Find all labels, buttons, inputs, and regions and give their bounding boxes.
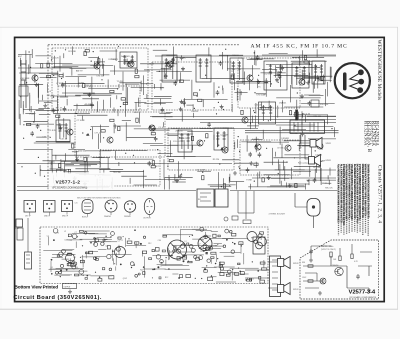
capacitor upper 14 [256, 55, 260, 60]
svg-text:C12 .05: C12 .05 [48, 162, 56, 164]
svg-text:L2: L2 [64, 231, 66, 233]
pcb extra pad 30 [110, 236, 111, 237]
pcb trace h5 [162, 234, 192, 236]
junction 39 [82, 132, 83, 133]
svg-text:C18 .04: C18 .04 [60, 139, 68, 141]
wire h68 [284, 140, 322, 142]
pcb pad 36 [152, 269, 154, 271]
capacitor upper 10 [182, 100, 186, 105]
wire v106 [98, 134, 100, 149]
svg-text:V2577-3-4: V2577-3-4 [349, 290, 376, 296]
output transistor bold bar [295, 110, 298, 121]
pcb trace v18 [115, 253, 117, 265]
capacitor upper 12 [246, 168, 250, 173]
wire z73 [56, 96, 58, 114]
junction 89 [120, 106, 121, 107]
wire v93 [291, 76, 293, 84]
pcb trace h22 [72, 233, 98, 235]
pcb trace v5 [165, 260, 167, 266]
wire h62 [297, 144, 322, 146]
wire z57 [52, 154, 90, 156]
pcb extra r6 [235, 273, 239, 276]
wire v11 [277, 106, 279, 118]
wire v72 [314, 80, 316, 88]
pcb part c30 [94, 257, 97, 260]
can square 2 [44, 201, 56, 213]
wire v149 [272, 148, 274, 165]
V34 extra wires [305, 244, 372, 288]
pcb extra trace 3 [209, 245, 224, 247]
wire h58 [267, 186, 306, 188]
wire v6 [114, 151, 116, 160]
wire v109 [208, 47, 210, 56]
ground sym 5 [249, 161, 253, 165]
wire z118 [40, 77, 57, 79]
svg-text:L2: L2 [121, 240, 123, 242]
wire z101 [222, 178, 224, 187]
wire v113 [115, 49, 117, 61]
transistor Q13 [317, 143, 323, 149]
junction 42 [117, 88, 118, 89]
wire z121 [36, 110, 59, 112]
wire z94 [152, 116, 173, 118]
IF can cross [200, 239, 210, 248]
pcb pad 40 [90, 242, 92, 244]
pcb pad 99 [232, 269, 233, 270]
svg-text:C7: C7 [252, 279, 254, 281]
pcb pad 15 [95, 257, 97, 259]
pcb trace h34 [89, 241, 117, 243]
pcb fill d18 [95, 272, 96, 273]
svg-text:FM: FM [302, 262, 305, 264]
pcb extra r1 [127, 241, 132, 243]
wire h57 [83, 93, 122, 95]
wire h72 [230, 180, 245, 182]
wire h33 [276, 97, 320, 99]
pcb pad 44 [123, 236, 124, 237]
can square 3 pins [64, 203, 70, 209]
shield box 7 [240, 140, 300, 175]
svg-text:R8 2.2K: R8 2.2K [325, 187, 333, 189]
pcb part r114 [218, 235, 220, 237]
pcb trace v22 [168, 250, 170, 259]
wire h10 [71, 162, 101, 164]
wire h70 [115, 158, 153, 160]
svg-text:SECTION VIEW SHOWING PARTS: SECTION VIEW SHOWING PARTS MOUNTING [77, 196, 121, 199]
wire z51 [53, 175, 55, 183]
junction 18 [225, 49, 226, 50]
junction 6 [331, 128, 332, 129]
transistor Q11 [247, 75, 253, 81]
wire h78 [145, 179, 186, 181]
pcb extra trace 16 [199, 248, 221, 250]
pcb pad 16 [251, 237, 252, 238]
wire z112 [280, 181, 282, 186]
wire bus 9 [17, 163, 232, 165]
wire v4 [93, 61, 95, 68]
svg-text:C7 10MF: C7 10MF [77, 120, 86, 122]
pcb part r51 [89, 251, 93, 254]
resistor upper 24 [135, 69, 137, 73]
pcb fill d17 [87, 275, 89, 277]
wire h99 [88, 56, 99, 58]
wire h95 [293, 114, 328, 116]
pcb part c116 [189, 244, 193, 248]
wire v3 [103, 64, 105, 77]
svg-text:C90 .02: C90 .02 [96, 75, 104, 77]
wire bus 6 [166, 119, 336, 121]
wire v115 [229, 174, 231, 182]
speaker SP1 [310, 138, 322, 150]
wire h39 [34, 142, 76, 144]
IF can T4 [230, 58, 243, 83]
svg-text:2SB175: 2SB175 [111, 59, 119, 61]
pcb extra r15 [67, 263, 72, 266]
svg-text:T2 455: T2 455 [117, 81, 124, 83]
pcb trace h11 [222, 238, 248, 240]
pcb trace h26 [172, 273, 178, 275]
PCB outline [40, 227, 268, 284]
pcb trace h3 [91, 275, 113, 277]
can square 2 pins [46, 203, 52, 209]
IF can T7 [312, 61, 325, 84]
svg-text:VOLUME CONTROL AT MINIMUM GANG: VOLUME CONTROL AT MINIMUM GANG CLOSED [350, 164, 353, 220]
wire v18 [284, 166, 286, 181]
wire v54 [55, 169, 57, 176]
shield box 1 [52, 48, 148, 110]
wire z80 [25, 112, 34, 114]
wire v58 [317, 75, 319, 88]
junction 17 [61, 78, 62, 79]
wire z18 [309, 60, 311, 65]
capacitor upper 28 [180, 55, 184, 60]
pcb extra r31 [226, 274, 230, 276]
svg-text:C15: C15 [116, 250, 119, 252]
pcb trace v29 [263, 260, 265, 268]
wire v107 [53, 56, 55, 68]
shield box 4 [152, 62, 232, 110]
wire v5 [34, 74, 36, 83]
pcb part r73 [247, 279, 252, 281]
svg-text:T2: T2 [57, 233, 59, 235]
capacitor upper 3 [308, 101, 312, 106]
resistor upper 44 [321, 77, 323, 81]
svg-text:SPKR: SPKR [326, 160, 332, 162]
wire z8 [261, 102, 263, 110]
pcb part c62 [56, 271, 59, 274]
svg-text:AM IF 455 KC, FM IF 10.7 MC: AM IF 455 KC, FM IF 10.7 MC [251, 43, 348, 49]
pcb part c115 [138, 273, 140, 275]
wire z41 [65, 153, 67, 161]
pcb pad 67 [184, 244, 186, 246]
ground sym 13 [275, 78, 279, 82]
junction 10 [278, 82, 279, 83]
connector drop 2 [245, 191, 247, 219]
pcb part r50 [174, 246, 176, 249]
V34 capacitor 1 [356, 274, 360, 279]
junction 65 [167, 166, 168, 167]
wire h53 [26, 123, 54, 125]
pcb part r32 [74, 274, 78, 276]
pcb part r56 [211, 257, 214, 259]
wire z23 [294, 75, 332, 77]
wire z14 [255, 56, 257, 65]
wire z96 [264, 161, 288, 163]
wire h2 [175, 56, 197, 58]
wire bus 2 [18, 67, 96, 69]
junction 66 [239, 168, 240, 169]
wire z68 [39, 114, 51, 116]
pcb extra r22 [79, 231, 83, 233]
wire v131 [72, 46, 74, 55]
transistor can TV1 pins [108, 203, 114, 210]
wire z53 [107, 158, 109, 169]
wire h111 [96, 61, 106, 63]
mid strip part a [232, 216, 238, 220]
svg-text:RT32N36A: RT32N36A [362, 121, 367, 146]
wire h40 [273, 157, 311, 159]
wire z123 [47, 84, 49, 93]
transistor Q6 [197, 140, 203, 146]
junction 29 [23, 138, 24, 139]
svg-text:JACK: JACK [149, 62, 155, 65]
terminal strip lines [272, 260, 278, 290]
pcb extra c25 [199, 256, 203, 260]
pcb trace h7 [96, 256, 106, 258]
V2577-3-4 dashed box [300, 240, 379, 299]
wire h108 [23, 109, 44, 111]
junction 84 [286, 162, 287, 163]
capacitor upper 20 [160, 107, 164, 112]
pcb trace v26 [69, 258, 71, 263]
wire h56 [174, 156, 212, 158]
wire z65 [60, 96, 68, 98]
service note stripe 9 [359, 165, 361, 232]
IF can T5 [264, 61, 287, 90]
pcb part r41 [67, 253, 71, 255]
service note stripe 6 [351, 165, 353, 232]
pcb trace v13 [179, 237, 181, 243]
wire v57 [160, 83, 162, 90]
pcb part r108 [69, 261, 74, 263]
wire h38 [169, 144, 201, 146]
sheet edge shadow bottom [0, 308, 398, 310]
pcb fill r16 [187, 243, 189, 245]
svg-text:( PC BOARD COMPONENTS): ( PC BOARD COMPONENTS) [349, 296, 377, 299]
capacitor upper 4 [301, 131, 305, 136]
wire h27 [153, 49, 167, 51]
Westinghouse logo W zigzag [350, 72, 361, 90]
wire v78 [222, 86, 224, 91]
wire z36 [69, 171, 85, 173]
capacitor upper 7 [147, 161, 151, 166]
ground sym 22 [220, 105, 224, 109]
pcb part r33 [142, 251, 146, 254]
wire z81 [144, 97, 172, 99]
pcb pad 46 [60, 276, 61, 277]
wire v122 [77, 77, 79, 88]
pcb trace h30 [218, 271, 236, 273]
pcb fill r14 [159, 277, 161, 279]
junction 78 [134, 162, 135, 163]
wire z29 [301, 70, 303, 81]
wire h7 [134, 128, 179, 130]
resistor upper 43 [56, 115, 60, 117]
sheet edge shadow right [397, 27, 399, 309]
capacitor upper 22 [174, 81, 178, 86]
junction 9 [254, 52, 255, 53]
wire v144 [257, 173, 259, 187]
transistor Q2 [94, 63, 100, 69]
wire v103 [163, 122, 165, 127]
wire h116 [219, 54, 243, 56]
ground sym 21 [59, 126, 63, 130]
pcb trace h41 [210, 276, 217, 278]
wire v28 [92, 127, 94, 140]
pcb part c84 [72, 234, 77, 239]
wire z56 [111, 182, 113, 188]
wire v45 [249, 74, 251, 90]
resistor upper 41 [136, 118, 138, 122]
wire v76 [192, 145, 194, 150]
svg-text:C30: C30 [158, 240, 161, 242]
resistor upper 34 [151, 166, 155, 168]
wire z5 [250, 58, 274, 60]
wire v95 [319, 163, 321, 181]
mid strip part b [243, 220, 251, 224]
pcb trace h20 [203, 235, 211, 237]
wire v121 [111, 177, 113, 189]
pcb part c55 [225, 229, 229, 233]
wire v147 [140, 81, 142, 92]
output transformer windings [294, 122, 318, 132]
junction 80 [40, 170, 41, 171]
V34 resistor 4 [339, 256, 341, 261]
pcb extra trace 9 [82, 256, 101, 258]
junction 88 [258, 75, 259, 76]
svg-text:R二 47: R二 47 [56, 107, 63, 110]
wire v110 [164, 178, 166, 189]
wire z46 [55, 155, 57, 160]
speaker wires lower [245, 262, 277, 288]
wire v111 [297, 112, 299, 120]
wire v135 [34, 111, 36, 121]
svg-text:SPKR: SPKR [293, 289, 299, 291]
wire z88 [166, 112, 173, 114]
wire h117 [292, 56, 324, 58]
junction 61 [297, 92, 298, 93]
capacitor upper 1 [313, 178, 317, 183]
wire z82 [192, 104, 194, 109]
wire v16 [59, 56, 61, 72]
wire h73 [62, 64, 104, 66]
pcb extra trace 13 [220, 251, 241, 253]
wire h114 [62, 83, 105, 85]
transistor Q5 [149, 125, 155, 131]
wire h13 [143, 143, 163, 145]
pcb pad 9 [173, 252, 174, 253]
wire z104 [325, 182, 332, 184]
wire h51 [65, 164, 74, 166]
svg-text:2SB156: 2SB156 [191, 111, 199, 113]
pcb extra r11 [152, 250, 154, 252]
wire h47 [119, 82, 141, 84]
capacitor upper 15 [281, 65, 285, 70]
wire h12 [35, 55, 51, 57]
wire left pcb [27, 218, 29, 252]
junction 30 [197, 96, 198, 97]
wire h60 [122, 120, 131, 122]
capacitor upper 17 [216, 90, 220, 95]
pcb extra pad 20 [241, 245, 242, 246]
transistor Q8 [255, 144, 261, 150]
connector pill [307, 199, 320, 217]
wire v74 [320, 168, 322, 185]
transistor Q12 [299, 79, 305, 85]
junction 41 [276, 70, 277, 71]
wire v133 [323, 75, 325, 85]
pcb part c31 [200, 227, 204, 231]
shield box 6 [168, 128, 234, 170]
pcb pad 61 [245, 279, 246, 280]
pcb extra trace 7 [214, 242, 222, 244]
wire z79 [30, 106, 32, 112]
pcb extra trace 11 [192, 238, 203, 240]
mid strip part c [224, 217, 228, 221]
wire h36 [19, 83, 43, 85]
electrolytic pill segs [84, 203, 91, 210]
wire h45 [124, 60, 133, 62]
junction 75 [238, 136, 239, 137]
Westinghouse logo ring [335, 63, 370, 98]
wire v50 [114, 124, 116, 128]
wire v123 [228, 177, 230, 183]
wire v25 [82, 116, 84, 120]
wire v145 [316, 49, 318, 57]
svg-text:R75 8.2K: R75 8.2K [48, 130, 57, 132]
wire z6 [309, 94, 324, 96]
wire v17 [99, 69, 101, 74]
pcb pad 117 [143, 266, 145, 268]
wire h112 [97, 157, 110, 159]
pcb pad 10 [82, 245, 83, 246]
svg-text:C9 365: C9 365 [277, 147, 284, 149]
wire h9 [52, 67, 72, 69]
wire v97 [301, 111, 303, 124]
capacitor upper 24 [164, 74, 168, 79]
sheet edge top [0, 26, 398, 28]
resistor upper 42 [110, 119, 114, 121]
wire v128 [122, 72, 124, 91]
pcb fill d20 [234, 243, 236, 245]
pcb extra c19 [103, 239, 105, 241]
wire v46 [326, 114, 328, 124]
wire h98 [54, 66, 79, 68]
wire h55 [125, 83, 139, 85]
pcb trace h14 [80, 238, 108, 240]
svg-text:R9 220: R9 220 [213, 159, 220, 161]
resistor upper 17 [169, 159, 173, 161]
pcb extra trace 15 [216, 281, 236, 283]
pcb extra c18 [191, 248, 195, 252]
wire h75 [210, 185, 231, 187]
pcb trace h35 [54, 274, 70, 276]
svg-text:OUTPUT: OUTPUT [64, 287, 71, 289]
pcb extra r2 [196, 258, 200, 260]
pcb part r105 [118, 237, 121, 239]
wire v59 [63, 118, 65, 137]
speaker SP4 [278, 282, 291, 294]
